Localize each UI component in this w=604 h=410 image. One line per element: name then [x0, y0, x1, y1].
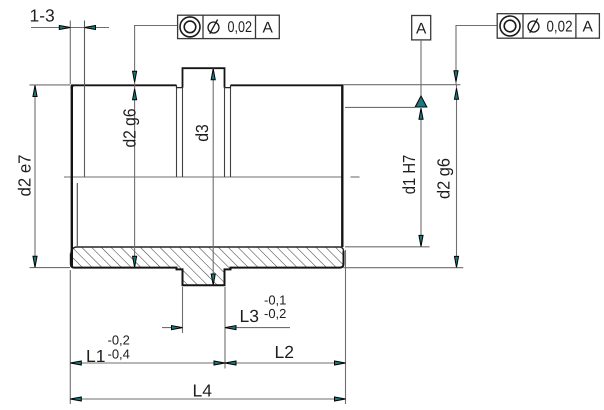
extension line d2 top right: [344, 84, 461, 86]
datum A triangle: [415, 96, 427, 107]
feature control frame right box: [497, 14, 599, 39]
svg-text:L4: L4: [193, 381, 213, 401]
dimension L1: [70, 361, 225, 365]
section outer bottom outline with boss notch: [71, 251, 344, 285]
svg-text:d2 g6: d2 g6: [120, 109, 140, 148]
svg-text:0,02: 0,02: [228, 19, 253, 36]
svg-text:L3: L3: [240, 306, 259, 326]
chamfer edge line: [84, 21, 86, 178]
bore chamfer edge line: [76, 183, 78, 246]
diameter symbol right: [528, 19, 539, 33]
hatched section band: [71, 247, 344, 285]
dimension d3: [211, 68, 215, 285]
bore bottom line (section top): [71, 247, 344, 254]
svg-text:A: A: [583, 19, 594, 36]
svg-text:1-3: 1-3: [30, 6, 55, 26]
extension line d2 bottom left: [30, 267, 71, 269]
boss d3 outline: [183, 68, 225, 87]
boss base groove right: [225, 85, 231, 87]
extension line bottom right: [345, 250, 347, 404]
boss base groove left: [177, 85, 183, 87]
groove edge line left inner: [182, 88, 184, 177]
extension line bottom left: [69, 270, 71, 404]
concentricity symbol right: [500, 16, 520, 36]
top edge left cylinder: [72, 84, 177, 86]
extension line L3 left: [182, 287, 184, 333]
dimension 1-3: [31, 25, 109, 29]
groove edge line right inner: [224, 88, 226, 177]
datum A leader: [420, 40, 422, 96]
extension line L3 right / L1-L2 boundary: [224, 287, 226, 369]
diameter symbol left: [208, 20, 219, 34]
svg-text:A: A: [416, 21, 427, 38]
dimension L2: [225, 361, 346, 365]
left end face edge: [71, 85, 73, 268]
svg-text:L2: L2: [275, 342, 294, 362]
svg-text:d2 e7: d2 e7: [15, 155, 35, 197]
groove edge line right outer: [230, 88, 232, 177]
concentricity symbol left: [180, 17, 200, 37]
extension line bore top right: [345, 106, 415, 108]
svg-text:d1 H7: d1 H7: [399, 155, 419, 195]
svg-text:-0,4: -0,4: [108, 347, 130, 362]
dimension L4: [70, 397, 345, 401]
svg-text:A: A: [263, 20, 274, 37]
dimension d1 H7: [419, 108, 423, 247]
datum A box: [412, 16, 431, 40]
top edge right cylinder: [231, 84, 344, 86]
svg-text:d3: d3: [192, 124, 212, 142]
svg-text:L1: L1: [86, 346, 105, 366]
feature control frame left box: [178, 15, 280, 38]
dimension d2 g6 left: [133, 85, 137, 267]
extension line d2 top left: [30, 84, 71, 86]
dimension d2 g6 right: [454, 85, 458, 268]
svg-text:-0,2: -0,2: [264, 306, 286, 321]
dimension L3: [162, 326, 290, 330]
extension line d2 bottom right: [344, 267, 464, 269]
extension line left edge top: [69, 21, 71, 85]
feature control frame right leader: [454, 26, 497, 85]
feature control frame left leader: [133, 26, 178, 86]
svg-text:0,02: 0,02: [547, 19, 573, 36]
svg-text:d2 g6: d2 g6: [434, 158, 454, 199]
centerline axis: [64, 176, 360, 178]
groove edge line left outer: [176, 88, 178, 177]
dimension d2 e7: [33, 85, 37, 268]
extension line bore bottom right: [345, 246, 430, 248]
right end face edge: [341, 85, 343, 248]
svg-text:-0,2: -0,2: [108, 333, 130, 348]
top left corner chamfer: [71, 85, 74, 88]
